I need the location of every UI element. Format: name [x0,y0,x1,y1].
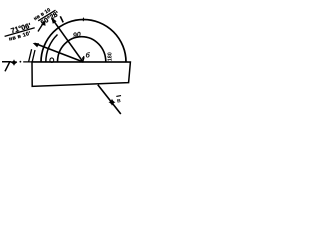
svg-text:180: 180 [108,52,114,61]
node star left [11,59,18,66]
node star on L1 lower [109,99,116,106]
line L2 [35,43,84,62]
svg-text:б: б [86,52,91,60]
vertex arrow pointing down [83,56,85,59]
inner arc [46,35,58,63]
glyph 7-shaped at left end [2,62,10,72]
base rectangle of protractor [32,62,130,86]
line L1 upper segment [52,19,83,63]
arrowhead of L2 [33,43,40,47]
label 0 [50,58,54,63]
arrowhead of short leader [41,21,46,26]
baseline 0-180 line [2,61,17,63]
svg-text:90: 90 [72,30,81,40]
line L1 lower segment [98,85,121,114]
short leader with arrow near label1 [38,22,44,31]
label v bottom right [116,96,122,105]
double tick lines left of arc [29,49,32,62]
label block 71 06 [2,20,36,44]
arrowhead of L1 [51,17,56,24]
outer arc [41,20,126,63]
dot on baseline [20,61,22,63]
tick on arc at reading [60,16,63,22]
baseline continued [23,61,130,63]
label block 50 28 [33,4,61,29]
tick 90 on arc [82,18,84,22]
medium semicircle [58,37,106,62]
